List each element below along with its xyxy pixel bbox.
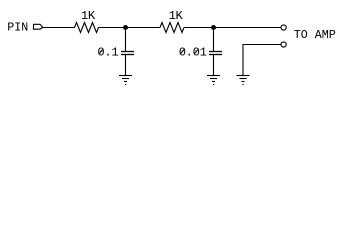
ground for return terminal	[237, 76, 250, 85]
svg-text:1K: 1K	[169, 9, 184, 23]
svg-text:TO AMP: TO AMP	[294, 28, 336, 42]
label C2 value 0.01	[179, 46, 207, 60]
wire R2 to output terminal through node B	[184, 27, 281, 29]
resistor R2	[160, 23, 184, 33]
svg-text:0.01: 0.01	[179, 46, 207, 60]
terminal ground return (open circle)	[281, 42, 286, 47]
capacitor C1	[121, 28, 134, 76]
resistor R1	[75, 23, 99, 33]
ground for C1	[119, 76, 132, 85]
label C1 value 0.1	[97, 46, 118, 60]
capacitor C2	[209, 28, 222, 76]
node A junction dot	[123, 25, 128, 30]
wire R1 to R2 through node A	[99, 27, 161, 29]
svg-text:1K: 1K	[81, 9, 96, 23]
wire PIN tag to R1	[43, 27, 75, 29]
node B junction dot	[211, 25, 216, 30]
ground for C2	[207, 76, 220, 85]
connector PIN tag	[34, 24, 43, 29]
svg-text:PIN: PIN	[7, 20, 28, 34]
terminal TO AMP (open circle)	[281, 25, 286, 30]
wire ground return terminal to ground	[243, 45, 281, 76]
